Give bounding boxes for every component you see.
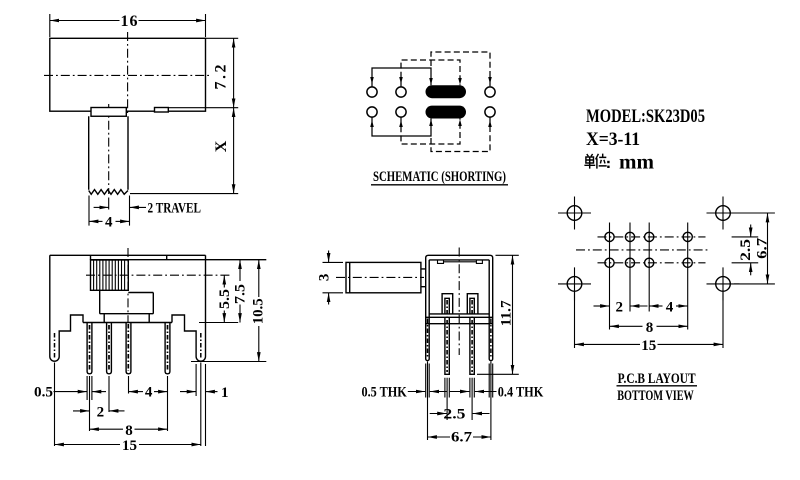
stem centerline — [336, 276, 424, 278]
stem sides — [89, 116, 128, 190]
bottom extension lines — [575, 223, 724, 349]
dim 15 arrows — [55, 444, 121, 446]
dim 6.7 line — [767, 213, 769, 284]
solid wire bottom — [372, 117, 431, 136]
pin row centerlines — [598, 236, 706, 238]
svg-text:MODEL:SK23D05: MODEL:SK23D05 — [586, 106, 705, 127]
cavity bottom — [429, 313, 489, 315]
svg-text:5.5: 5.5 — [217, 289, 233, 309]
svg-text:15: 15 — [122, 438, 137, 454]
svg-text:2.5: 2.5 — [443, 406, 465, 422]
dim 0.4 THK arrows — [450, 391, 470, 393]
mounting hole bottom-left — [567, 277, 582, 292]
pin hole row 1 — [605, 232, 614, 241]
latch step — [155, 108, 169, 113]
svg-text:8: 8 — [125, 423, 133, 439]
body outline — [50, 38, 206, 111]
pin 1 — [87, 323, 92, 374]
svg-text:P.C.B LAYOUT: P.C.B LAYOUT — [618, 371, 696, 387]
svg-text:8: 8 — [646, 320, 654, 336]
neck — [421, 269, 426, 287]
vertical centerline — [127, 248, 129, 322]
terminal circles row 1 — [367, 87, 377, 97]
dim 11.7 extension lines — [477, 255, 519, 374]
svg-text:2: 2 — [97, 405, 105, 421]
dim 0.5 arrows — [54, 391, 88, 393]
dim 16 extension lines — [50, 14, 206, 37]
dim 3 arrows — [328, 251, 330, 263]
bottom shelf — [83, 322, 172, 324]
slot walls — [91, 255, 267, 260]
svg-text:0.5 THK: 0.5 THK — [362, 384, 408, 400]
mounting hole top-right — [716, 206, 731, 221]
dashed wire mid bottom — [401, 117, 460, 144]
shorting bar 2 — [426, 106, 467, 119]
middle centerline — [576, 249, 708, 251]
mounting hole crosshairs — [558, 197, 740, 301]
leg centerline extensions — [428, 362, 491, 441]
top plate line — [444, 261, 477, 263]
pin 4 — [165, 323, 170, 374]
top plate notches — [438, 260, 483, 264]
dim 15 arrows — [575, 343, 641, 345]
dim 4 arrows — [89, 220, 103, 222]
pin 2 — [107, 323, 112, 374]
wire arrowheads — [370, 77, 492, 127]
dim 6.7 arrows — [428, 436, 451, 438]
svg-text:1: 1 — [221, 385, 229, 401]
shorting bar 1 — [426, 85, 467, 98]
right extension lines — [732, 213, 775, 284]
dim 0.5 THK arrows — [408, 391, 425, 393]
dim 4 arrows — [649, 305, 662, 307]
dim 10.5 — [258, 260, 260, 297]
dim 4 arrows — [129, 391, 144, 393]
svg-text:2: 2 — [616, 300, 624, 316]
svg-text:7.5: 7.5 — [233, 284, 249, 304]
pin hole row 2 — [605, 258, 614, 267]
horizontal centerline — [44, 74, 211, 76]
dim 4 extension lines — [89, 196, 130, 226]
stem break zigzag — [89, 190, 128, 195]
dim 2.5 arrows — [430, 413, 447, 415]
terminal circles row 2 — [367, 107, 377, 117]
leg centerlines — [427, 319, 429, 358]
svg-text:BOTTOM VIEW: BOTTOM VIEW — [617, 388, 694, 404]
dashed wire outer bottom — [431, 117, 490, 152]
pin1 edge extensions — [87, 376, 92, 400]
svg-text:4: 4 — [145, 385, 153, 401]
svg-text:2 TRAVEL: 2 TRAVEL — [148, 201, 202, 217]
svg-text:mm: mm — [619, 151, 654, 173]
pin 3 — [126, 323, 131, 374]
svg-text:X=3-11: X=3-11 — [586, 129, 640, 150]
pin centerline extensions — [90, 376, 168, 431]
pin centerline extensions — [447, 378, 472, 420]
svg-text:15: 15 — [641, 338, 656, 354]
svg-text:0.4 THK: 0.4 THK — [498, 384, 544, 400]
fullwidth colon — [607, 161, 609, 163]
hanzi wei (position) — [596, 154, 607, 169]
svg-text:3: 3 — [316, 274, 332, 282]
dim 7.5 — [239, 260, 241, 281]
vertical body centerline — [127, 32, 129, 116]
pin 1 side — [445, 317, 449, 374]
leg edge extensions — [426, 364, 493, 398]
pin edge extensions — [445, 378, 474, 398]
dim 11.7 line — [512, 255, 514, 374]
leg edge extensions — [196, 364, 205, 446]
dim 7.2 / X extension lines — [130, 38, 238, 193]
dashed wire outer top — [431, 52, 490, 87]
svg-text:16: 16 — [121, 13, 138, 30]
svg-text:6.7: 6.7 — [451, 430, 473, 446]
dim 8 arrows — [610, 325, 643, 327]
right dim extension lines — [191, 323, 266, 362]
mounting hole top-left — [567, 206, 582, 221]
knob (hatched) — [91, 260, 129, 290]
pin 2 side — [470, 317, 474, 374]
mounting hole bottom-right — [716, 277, 731, 292]
travel arrows — [94, 206, 109, 208]
dim 2 arrow — [594, 305, 610, 307]
svg-text:2.5: 2.5 — [738, 239, 754, 261]
frame inner top — [429, 259, 489, 261]
svg-text:7.2: 7.2 — [213, 65, 230, 90]
svg-text:4: 4 — [105, 215, 113, 231]
dim 2.5 arrows — [750, 225, 752, 237]
svg-text:4: 4 — [666, 300, 674, 316]
dim X line — [233, 108, 235, 121]
leg centerline extensions — [55, 363, 201, 447]
stem collar — [91, 108, 126, 117]
dim 7.2 line — [233, 38, 235, 52]
dim 2 arrows — [73, 410, 90, 412]
horizontal centerline — [86, 274, 232, 276]
stem centerline — [108, 104, 110, 194]
pin centerlines — [89, 325, 91, 371]
svg-text:X: X — [213, 140, 230, 152]
svg-text:6.7: 6.7 — [754, 237, 770, 259]
svg-text:10.5: 10.5 — [251, 298, 267, 324]
pin centerlines — [446, 300, 448, 372]
dim 3 extension lines — [323, 262, 344, 292]
body vertical centerline — [458, 248, 460, 356]
svg-text:11.7: 11.7 — [499, 300, 515, 326]
dim 1 arrows — [180, 391, 196, 393]
pedestal — [100, 290, 154, 313]
hanzi dan (unit) — [584, 154, 595, 169]
contact 1 — [442, 294, 453, 314]
contact 2 — [467, 294, 478, 314]
actuator stem — [346, 262, 421, 292]
dim 5.5 — [223, 275, 225, 287]
svg-text:SCHEMATIC (SHORTING): SCHEMATIC (SHORTING) — [373, 169, 506, 185]
frame outline with legs — [426, 255, 493, 360]
svg-text:0.5: 0.5 — [34, 385, 53, 401]
dashed wire mid top — [401, 60, 460, 87]
dim 16 lines — [50, 20, 120, 22]
dim 8 arrows — [90, 428, 124, 430]
stem end cap line — [349, 262, 351, 292]
leg centerlines — [54, 333, 56, 358]
shelf lines — [426, 317, 493, 323]
inner box — [104, 314, 149, 323]
solid wire top — [372, 68, 431, 87]
body outline with legs and tabs — [50, 255, 206, 361]
